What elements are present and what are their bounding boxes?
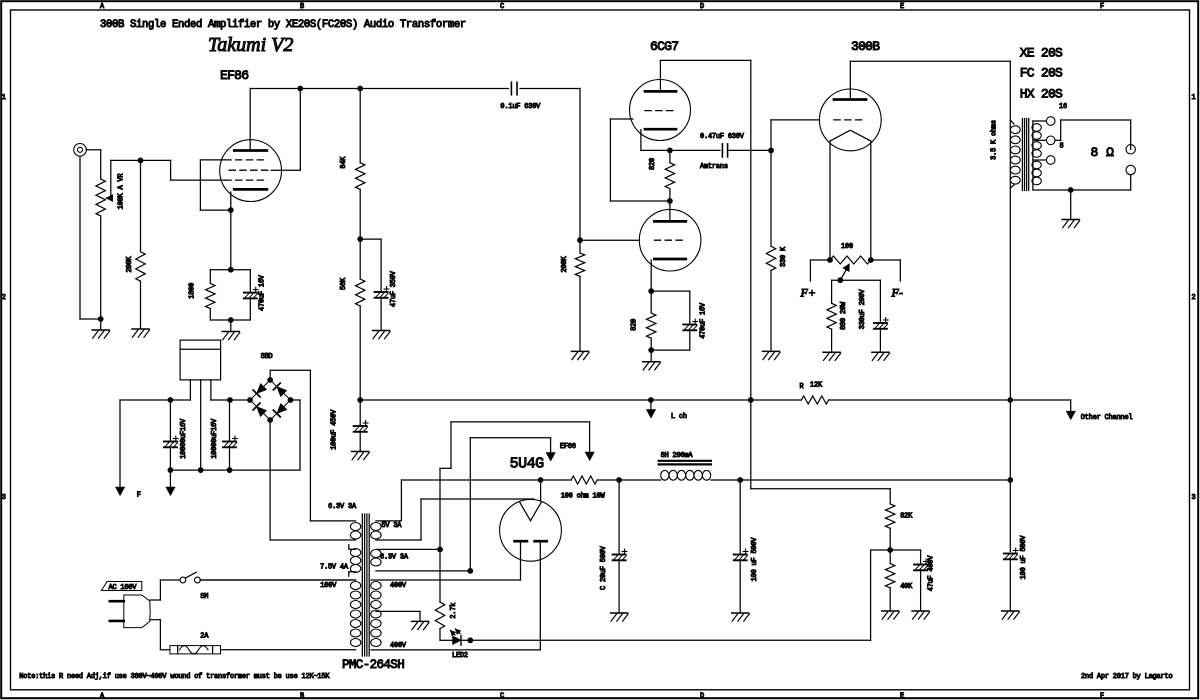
svg-text:3.5 K ohms: 3.5 K ohms xyxy=(990,120,998,160)
svg-text:C 20uF 500V: C 20uF 500V xyxy=(600,545,608,590)
svg-text:820: 820 xyxy=(631,319,639,331)
svg-text:400V: 400V xyxy=(390,582,407,590)
svg-text:F: F xyxy=(1100,3,1104,11)
svg-text:330uF 200V: 330uF 200V xyxy=(859,289,867,330)
svg-text:10000uF16V: 10000uF16V xyxy=(180,418,188,459)
svg-text:100 ohm 10W: 100 ohm 10W xyxy=(561,493,606,501)
svg-text:330 K: 330 K xyxy=(780,246,788,267)
svg-text:D: D xyxy=(700,3,704,11)
svg-text:200K: 200K xyxy=(561,256,569,273)
svg-text:100uF 450V: 100uF 450V xyxy=(330,409,338,450)
svg-text:47uF 350V: 47uF 350V xyxy=(390,270,398,307)
svg-text:SBD: SBD xyxy=(261,353,273,361)
svg-text:300B: 300B xyxy=(851,39,880,54)
svg-text:8: 8 xyxy=(1060,143,1064,151)
svg-text:16: 16 xyxy=(1059,103,1067,111)
svg-text:2A: 2A xyxy=(200,633,209,641)
svg-text:1: 1 xyxy=(1192,94,1196,102)
svg-text:100 uF 500V: 100 uF 500V xyxy=(751,537,759,582)
svg-text:1800: 1800 xyxy=(189,283,197,299)
svg-text:Note:this R need Adj,if use 38: Note:this R need Adj,if use 380V~400V wo… xyxy=(19,673,330,681)
svg-text:0.1uF 630V: 0.1uF 630V xyxy=(500,103,541,111)
svg-text:1: 1 xyxy=(2,94,6,102)
svg-text:880 20W: 880 20W xyxy=(840,301,848,330)
svg-text:F: F xyxy=(1100,693,1104,700)
svg-text:8H 200mA: 8H 200mA xyxy=(661,452,694,460)
svg-text:F+: F+ xyxy=(800,286,816,300)
svg-text:LED2: LED2 xyxy=(452,652,468,660)
svg-text:3: 3 xyxy=(2,494,6,502)
svg-text:EF86: EF86 xyxy=(560,443,576,451)
svg-text:200K: 200K xyxy=(126,256,134,273)
svg-text:7.5V 4A: 7.5V 4A xyxy=(320,564,349,572)
svg-text:470uF 16V: 470uF 16V xyxy=(700,302,708,339)
svg-text:100V: 100V xyxy=(320,582,337,590)
svg-text:E: E xyxy=(900,3,904,11)
svg-text:HX 20S: HX 20S xyxy=(1020,86,1063,101)
svg-text:FC 20S: FC 20S xyxy=(1020,65,1063,80)
svg-text:12K: 12K xyxy=(810,382,823,390)
svg-text:0.47uF 630V: 0.47uF 630V xyxy=(700,133,745,141)
svg-text:2: 2 xyxy=(1192,294,1196,302)
svg-text:SM: SM xyxy=(200,593,208,601)
svg-text:82K: 82K xyxy=(900,513,913,521)
svg-text:XE 20S: XE 20S xyxy=(1020,46,1063,61)
svg-text:Amtrans: Amtrans xyxy=(700,163,728,171)
svg-text:B: B xyxy=(300,3,304,11)
svg-text:10000uF16V: 10000uF16V xyxy=(211,418,219,459)
svg-text:R: R xyxy=(800,383,804,391)
svg-text:L ch: L ch xyxy=(671,413,687,421)
svg-text:400V: 400V xyxy=(390,642,407,650)
svg-text:2nd Apr 2017 by Lagarto: 2nd Apr 2017 by Lagarto xyxy=(1081,673,1172,681)
svg-text:2.7k: 2.7k xyxy=(450,603,458,619)
svg-text:PMC-264SH: PMC-264SH xyxy=(342,658,404,672)
svg-text:100 uF 500V: 100 uF 500V xyxy=(1020,535,1028,580)
svg-text:6.3V 3A: 6.3V 3A xyxy=(380,554,409,562)
svg-text:40K: 40K xyxy=(900,583,913,591)
svg-text:3: 3 xyxy=(1192,494,1196,502)
svg-text:Takumi V2: Takumi V2 xyxy=(208,34,293,56)
svg-text:F-: F- xyxy=(891,286,903,300)
svg-text:100: 100 xyxy=(841,243,853,251)
svg-text:AC 100V: AC 100V xyxy=(109,584,138,592)
svg-text:56K: 56K xyxy=(340,277,348,290)
svg-text:8 Ω: 8 Ω xyxy=(1091,145,1115,160)
svg-text:820: 820 xyxy=(649,158,657,170)
svg-text:F: F xyxy=(137,492,141,500)
svg-text:5V 3A: 5V 3A xyxy=(381,522,402,530)
svg-text:E: E xyxy=(900,693,904,700)
svg-text:5U4G: 5U4G xyxy=(510,456,545,473)
svg-text:2: 2 xyxy=(2,294,6,302)
svg-text:6CG7: 6CG7 xyxy=(650,39,678,54)
svg-text:47uF 400V: 47uF 400V xyxy=(928,555,936,592)
svg-text:C: C xyxy=(500,693,504,700)
svg-text:B: B xyxy=(300,693,304,700)
svg-text:C: C xyxy=(500,3,504,11)
svg-text:D: D xyxy=(700,693,704,700)
svg-text:470uF 16V: 470uF 16V xyxy=(258,274,266,311)
svg-text:100K A VR: 100K A VR xyxy=(118,174,126,210)
svg-text:84K: 84K xyxy=(340,156,348,169)
svg-text:EF86: EF86 xyxy=(220,68,248,83)
svg-text:6.3V 3A: 6.3V 3A xyxy=(328,503,357,511)
svg-text:Other Channel: Other Channel xyxy=(1081,414,1133,422)
svg-text:300B Single Ended Amplifier by: 300B Single Ended Amplifier by XE20S(FC2… xyxy=(100,19,466,31)
